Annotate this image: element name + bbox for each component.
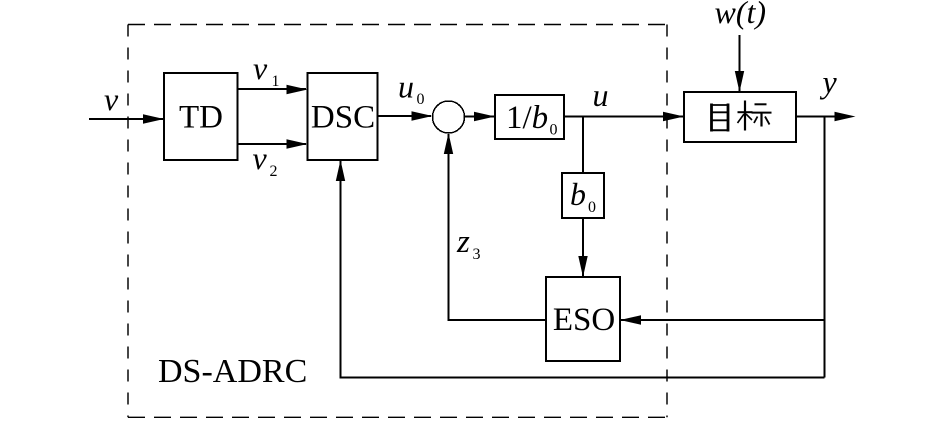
svg-text:u: u [398, 69, 414, 105]
svg-text:z: z [456, 224, 470, 260]
svg-text:w(t): w(t) [715, 0, 767, 30]
svg-text:3: 3 [473, 246, 481, 263]
svg-text:v: v [253, 50, 268, 86]
svg-text:TD: TD [179, 100, 223, 136]
svg-text:ESO: ESO [553, 302, 615, 338]
svg-text:v: v [253, 140, 268, 176]
svg-text:0: 0 [588, 199, 596, 216]
svg-text:v: v [104, 81, 119, 117]
svg-text:u: u [593, 77, 609, 113]
svg-text:b: b [570, 176, 586, 212]
svg-text:DSC: DSC [311, 100, 375, 136]
svg-text:1/b: 1/b [506, 100, 548, 136]
svg-text:DS-ADRC: DS-ADRC [158, 353, 307, 390]
svg-text:0: 0 [417, 91, 425, 108]
svg-text:0: 0 [550, 122, 558, 139]
svg-text:1: 1 [272, 73, 280, 90]
svg-text:2: 2 [270, 163, 278, 180]
svg-text:y: y [820, 64, 838, 100]
